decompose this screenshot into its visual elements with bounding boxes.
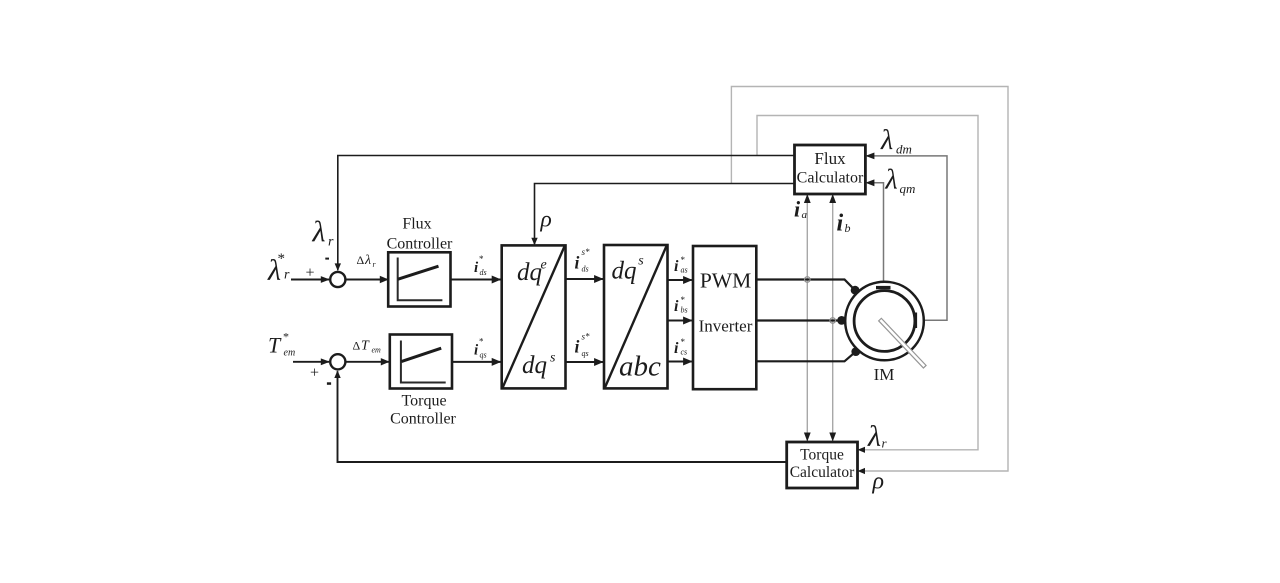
node i_a tap circle	[805, 277, 811, 283]
wire phase a PWM to IM	[756, 280, 855, 291]
wire phase c PWM to IM	[756, 352, 856, 362]
wire flux error to Flux Controller	[345, 279, 388, 281]
wire lambda_r* input	[291, 279, 329, 281]
svg-text:qs: qs	[480, 351, 487, 360]
svg-text:i: i	[674, 298, 679, 315]
wire i_as* block2 to PWM	[668, 279, 692, 281]
wire rho from Flux Calculator to dq-transform block top	[535, 184, 795, 245]
block Flux Controller box	[388, 252, 450, 306]
svg-text:r: r	[284, 268, 290, 283]
arrowhead lambda_r* into summing junction	[321, 276, 330, 283]
svg-text:Controller: Controller	[390, 411, 456, 428]
svg-text:Δ: Δ	[357, 253, 365, 267]
block dq-e/dq-s transform (block1)	[502, 245, 566, 388]
wire phase b PWM to IM	[756, 319, 842, 321]
svg-text:λ: λ	[885, 165, 898, 196]
arrowhead i_b down into Torque Calculator	[829, 433, 836, 442]
svg-text:cs: cs	[681, 348, 688, 357]
wire i_qs_s* block1 to block2	[566, 361, 604, 363]
svg-text:i: i	[794, 197, 801, 222]
svg-text:T: T	[268, 333, 282, 358]
label minus at torque summing	[327, 382, 331, 385]
arrowhead i_bs* into PWM	[683, 317, 693, 325]
wire lambda_r feedback from Flux Calculator to flux summing junction	[338, 156, 795, 271]
arrowhead torque error into Torque Controller	[381, 358, 390, 365]
arrowhead lambda_qm into Flux Calculator	[865, 179, 874, 186]
wire i_qs* from Torque Controller to dq block	[452, 361, 501, 363]
svg-text:+: +	[310, 365, 319, 382]
wire T_em* input	[293, 361, 329, 363]
wire rho feedback gray outer path to Torque Calculator	[731, 87, 1008, 472]
wire i_ds* from Flux Controller to dq block	[451, 279, 501, 281]
svg-text:*: *	[681, 295, 686, 305]
arrowhead rho into Torque Calculator	[858, 468, 866, 474]
svg-text:λ: λ	[364, 253, 371, 268]
svg-text:Calculator: Calculator	[790, 464, 855, 481]
arrowhead i_as* into PWM	[683, 276, 693, 284]
wire i_a vertical (phase-a current tap to Flux and Torque Calculators)	[806, 194, 808, 442]
arrowhead i_qs* into dq block	[492, 358, 502, 366]
svg-text:Inverter: Inverter	[699, 317, 753, 336]
wire i_b vertical (phase-b current tap)	[832, 194, 834, 442]
block PWM Inverter box	[693, 246, 756, 389]
svg-text:Flux: Flux	[402, 216, 431, 233]
svg-text:ds: ds	[582, 265, 589, 274]
svg-text:ρ: ρ	[540, 207, 552, 233]
svg-text:*: *	[479, 337, 484, 347]
node phase a connection dot	[851, 286, 860, 295]
wire i_bs* block2 to PWM	[668, 320, 692, 322]
block dq-s/abc transform (block2)	[604, 245, 668, 388]
svg-text:Δ: Δ	[353, 339, 361, 353]
arrowhead i_qs_s* into block2	[594, 358, 604, 366]
wire i_cs* block2 to PWM	[668, 361, 692, 363]
svg-text:*: *	[681, 337, 686, 347]
motor IM rotor slash	[879, 318, 926, 368]
svg-text:s*: s*	[582, 332, 591, 342]
svg-text:r: r	[328, 235, 334, 250]
svg-text:dq: dq	[522, 352, 547, 379]
node phase b connection dot	[837, 316, 846, 325]
arrowhead lambda_r into summing junction top	[335, 263, 341, 271]
arrowhead i_a up into Flux Calculator	[804, 194, 811, 203]
arrowhead lambda_r into Torque Calculator	[858, 447, 866, 453]
svg-text:PWM: PWM	[700, 268, 751, 292]
svg-text:qm: qm	[900, 181, 916, 196]
svg-text:bs: bs	[681, 306, 688, 315]
arrowhead lambda_dm into Flux Calculator	[865, 153, 874, 160]
arrowhead torque feedback into summing junction bottom	[334, 370, 340, 378]
svg-text:Torque: Torque	[401, 393, 446, 410]
arrowhead i_ds* into dq block	[492, 276, 502, 284]
svg-text:Torque: Torque	[800, 447, 844, 464]
svg-text:s*: s*	[582, 247, 591, 257]
wire torque error to Torque Controller	[345, 361, 389, 363]
motor IM top brush tick	[876, 286, 891, 289]
motor IM outer circle	[845, 282, 924, 361]
svg-text:*: *	[278, 251, 286, 267]
wire lambda_qm from IM to Flux Calculator	[867, 183, 884, 285]
label minus at flux summing	[325, 258, 329, 260]
svg-text:i: i	[837, 211, 844, 237]
svg-text:i: i	[674, 258, 679, 275]
arrowhead flux error into Flux Controller	[380, 276, 389, 283]
svg-text:i: i	[674, 340, 679, 357]
svg-text:λ: λ	[867, 420, 881, 453]
svg-text:i: i	[575, 337, 580, 357]
svg-text:qs: qs	[582, 349, 589, 358]
Torque Controller graph axes	[401, 341, 446, 383]
arrowhead i_ds_s* into block2	[594, 275, 604, 283]
block Torque Controller box	[390, 335, 452, 389]
svg-text:λ: λ	[312, 216, 326, 249]
svg-text:*: *	[283, 330, 289, 344]
arrowhead i_a down into Torque Calculator	[804, 433, 811, 442]
svg-text:as: as	[681, 266, 688, 275]
block Flux Calculator box	[795, 145, 866, 194]
node i_b tap circle	[830, 318, 836, 324]
svg-text:Calculator: Calculator	[797, 170, 864, 187]
Flux Controller graph axes	[398, 258, 443, 301]
motor IM right brush tick	[914, 313, 917, 329]
arrowhead i_b up into Flux Calculator	[829, 194, 836, 203]
svg-text:*: *	[681, 255, 686, 265]
arrowhead i_cs* into PWM	[683, 358, 693, 366]
svg-text:s: s	[550, 351, 556, 366]
svg-text:IM: IM	[874, 365, 895, 384]
wire i_ds_s* block1 to block2	[566, 278, 604, 280]
svg-text:+: +	[306, 265, 315, 282]
svg-text:T: T	[361, 339, 370, 354]
svg-text:Flux: Flux	[814, 149, 846, 168]
svg-text:λ: λ	[880, 125, 893, 156]
block Torque Calculator box	[787, 442, 858, 488]
wire torque feedback from Torque Calculator to torque summing junction	[338, 371, 787, 462]
svg-text:s: s	[638, 254, 644, 269]
svg-text:a: a	[802, 209, 808, 221]
svg-text:ds: ds	[480, 268, 487, 277]
svg-text:e: e	[541, 258, 547, 273]
Flux Controller characteristic line	[398, 266, 439, 279]
svg-text:abc: abc	[619, 351, 661, 383]
node phase c connection dot	[851, 347, 860, 356]
svg-text:i: i	[575, 253, 580, 273]
svg-text:em: em	[372, 346, 382, 355]
summing junction flux	[330, 272, 345, 287]
svg-text:b: b	[845, 221, 851, 235]
svg-text:dq: dq	[517, 259, 542, 286]
summing junction torque	[330, 354, 345, 369]
svg-text:em: em	[284, 348, 296, 359]
svg-text:Controller: Controller	[387, 236, 453, 253]
wire lambda_r feedback gray inner path to Torque Calculator	[757, 116, 978, 450]
arrowhead T_em* into summing junction	[321, 358, 330, 365]
motor IM inner circle	[854, 291, 915, 352]
svg-text:dm: dm	[896, 142, 912, 157]
svg-text:ρ: ρ	[872, 469, 885, 495]
arrowhead rho into dq block top	[531, 238, 537, 246]
block1 diagonal	[503, 246, 565, 387]
wire lambda_dm from IM to Flux Calculator	[867, 156, 947, 320]
svg-text:dq: dq	[612, 258, 637, 285]
Torque Controller characteristic line	[401, 348, 441, 361]
block2 diagonal	[605, 246, 667, 387]
svg-text:*: *	[479, 254, 484, 264]
